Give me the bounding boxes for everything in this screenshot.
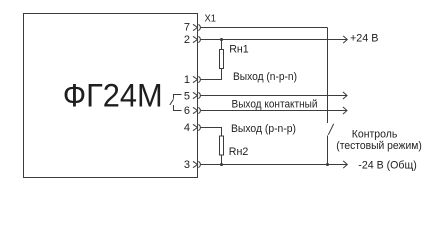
- resistor Rн2 body: [220, 136, 224, 155]
- svg-text:1: 1: [184, 74, 190, 86]
- pin 2 connector symbol: [193, 36, 200, 42]
- pin 3 connector symbol: [193, 161, 200, 167]
- wire pin2 to +24V: [201, 39, 348, 41]
- wire pin1 to Rн1: [201, 79, 222, 81]
- svg-text:ФГ24М: ФГ24М: [63, 78, 163, 114]
- svg-text:+24 В: +24 В: [350, 32, 379, 44]
- wire pin7 to control line corner: [201, 27, 328, 29]
- pin 4 connector symbol: [193, 124, 200, 130]
- resistor Rн2 lead bottom: [221, 155, 223, 165]
- svg-text:6: 6: [184, 105, 190, 117]
- svg-text:X1: X1: [205, 14, 217, 25]
- pin 5 connector symbol: [193, 92, 200, 98]
- switch S (Контроль) blade: [328, 124, 333, 135]
- resistor Rн1 lead bottom: [221, 69, 223, 80]
- device box ФГ24М: [24, 14, 198, 178]
- svg-text:-24 В (Общ): -24 В (Общ): [358, 159, 417, 171]
- relay contact symbol upper hook: [174, 95, 182, 99]
- pin 6 connector symbol: [193, 107, 200, 113]
- arrow -24V: [343, 161, 347, 168]
- pin 7 connector symbol: [193, 24, 200, 30]
- resistor Rн1 lead top: [221, 40, 223, 50]
- junction node switch/pin3 wire: [326, 163, 329, 166]
- svg-text:Выход контактный: Выход контактный: [232, 99, 318, 111]
- pin 1 connector symbol: [193, 76, 200, 82]
- arrow pin6 output: [343, 107, 347, 114]
- svg-text:3: 3: [184, 159, 190, 171]
- arrow pin5 output: [343, 92, 347, 99]
- junction node pin2/Rн1: [220, 38, 223, 41]
- wire pin3 to -24V common: [201, 164, 348, 166]
- wire control vertical (upper): [327, 28, 329, 124]
- wire pin4 to Rн2: [201, 128, 222, 137]
- relay contact symbol blade: [170, 99, 174, 105]
- svg-text:Выход (p-n-p): Выход (p-n-p): [231, 123, 296, 135]
- svg-text:Выход (n-p-n): Выход (n-p-n): [233, 71, 297, 83]
- resistor Rн1 body: [220, 50, 224, 69]
- svg-text:Rн1: Rн1: [229, 44, 249, 56]
- svg-text:Rн2: Rн2: [229, 146, 249, 158]
- svg-text:Контроль: Контроль: [352, 128, 398, 140]
- relay contact symbol lower hook: [174, 105, 182, 111]
- arrow +24V: [343, 36, 347, 43]
- wire pin6 contact output: [201, 110, 347, 112]
- svg-text:4: 4: [184, 122, 190, 134]
- svg-text:7: 7: [184, 22, 190, 34]
- svg-text:2: 2: [184, 34, 190, 46]
- wire control vertical (lower): [327, 136, 329, 165]
- svg-text:(тестовый режим): (тестовый режим): [336, 140, 422, 152]
- wire pin5 contact output: [201, 95, 347, 97]
- svg-text:5: 5: [184, 91, 190, 103]
- junction node Rн2/pin3 wire: [220, 163, 223, 166]
